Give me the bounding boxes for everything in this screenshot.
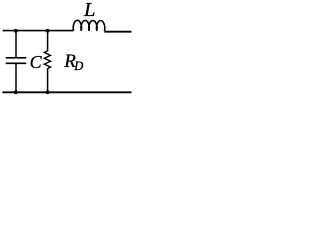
- svg-text:D: D: [73, 59, 83, 73]
- node junction dot bottom-left: [14, 90, 18, 94]
- capacitor C top plate: [6, 57, 27, 59]
- svg-text:C: C: [30, 52, 43, 72]
- wire resistor bottom lead: [47, 68, 49, 92]
- wire capacitor top lead: [15, 31, 17, 58]
- wire top rail: [3, 30, 74, 32]
- node junction dot bottom-right: [46, 90, 50, 94]
- svg-text:L: L: [83, 0, 95, 21]
- wire capacitor bottom lead: [15, 63, 17, 92]
- wire bottom rail: [3, 91, 132, 93]
- node junction dot top-left (capacitor tap): [14, 29, 18, 33]
- wire resistor top lead: [47, 31, 49, 51]
- inductor L coil: [73, 20, 105, 31]
- resistor RD zigzag: [44, 51, 50, 69]
- node junction dot top-right (resistor tap): [46, 29, 50, 33]
- capacitor C bottom plate: [6, 62, 27, 64]
- wire output rail: [104, 31, 131, 33]
